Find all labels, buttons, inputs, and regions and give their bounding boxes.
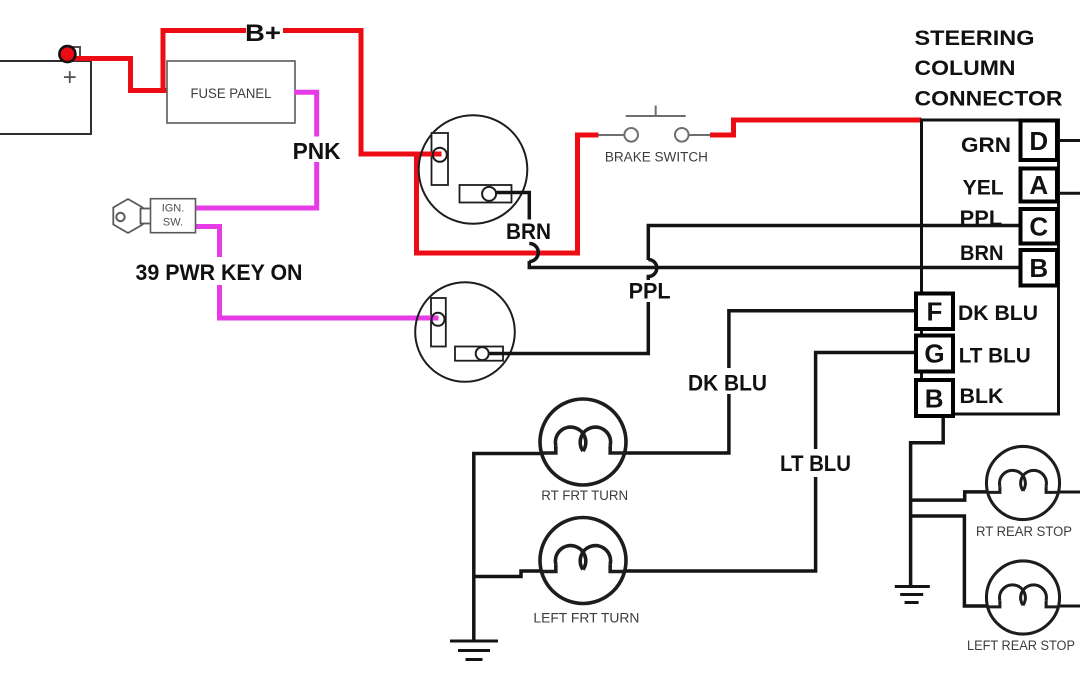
turn flasher U1 pin housing vertical <box>432 133 449 185</box>
wire LT BLU to connector pin G <box>816 353 914 450</box>
wire red B+ riser <box>163 31 246 93</box>
svg-text:DK BLU: DK BLU <box>688 371 767 396</box>
wire PPL flasher U2 output <box>488 302 648 354</box>
wire red B+ to flasher U1 <box>283 31 441 155</box>
svg-text:39 PWR KEY ON: 39 PWR KEY ON <box>136 260 303 285</box>
connector pin D <box>1021 121 1058 161</box>
svg-text:RT REAR STOP: RT REAR STOP <box>976 524 1072 539</box>
connector pin G <box>916 336 953 372</box>
wire DK BLU from RT FRT TURN <box>626 394 729 453</box>
svg-text:B: B <box>1029 253 1048 283</box>
svg-text:PNK: PNK <box>293 138 341 164</box>
svg-text:G: G <box>924 339 944 369</box>
wire pin A to right edge <box>1059 192 1080 195</box>
svg-text:BRN: BRN <box>960 242 1004 265</box>
svg-text:CONNECTOR: CONNECTOR <box>915 87 1063 111</box>
connector pin B lower <box>916 380 953 416</box>
wire BLK pin B to ground bus <box>911 418 944 586</box>
svg-text:A: A <box>1029 170 1048 200</box>
wire red branch to brake switch <box>417 135 599 253</box>
ignition switch key head <box>113 199 142 233</box>
svg-text:LT BLU: LT BLU <box>959 345 1031 368</box>
steering column connector body <box>922 120 1059 414</box>
wire LEFT REAR STOP to right edge <box>1060 605 1080 608</box>
svg-text:LT BLU: LT BLU <box>780 451 851 476</box>
svg-text:D: D <box>1029 126 1048 156</box>
stop flasher U2 pin housing vertical <box>431 298 446 347</box>
svg-text:GRN: GRN <box>961 134 1011 157</box>
svg-text:IGN.: IGN. <box>162 203 185 215</box>
svg-text:LEFT FRT TURN: LEFT FRT TURN <box>533 611 639 626</box>
brake switch contact left <box>624 128 638 142</box>
wire PPL hop over BRN wire <box>648 260 657 281</box>
turn flasher U1 pin housing horizontal <box>460 185 512 203</box>
stop flasher U2 terminal 2 <box>476 347 489 360</box>
battery positive terminal <box>59 46 75 62</box>
wire LT BLU from LEFT FRT TURN <box>626 477 816 571</box>
brake switch actuator stem <box>655 106 657 117</box>
wire DK BLU to connector pin F <box>729 311 914 368</box>
svg-text:STEERING: STEERING <box>915 26 1035 50</box>
svg-text:BRAKE SWITCH: BRAKE SWITCH <box>605 150 708 165</box>
svg-text:YEL: YEL <box>963 177 1004 200</box>
turn flasher U1 terminal 2 <box>482 187 496 201</box>
wire LEFT FRT TURN left to ground bus <box>474 571 541 577</box>
svg-text:F: F <box>927 297 943 327</box>
wire red brake switch to connector <box>710 120 922 135</box>
wire red stub into flasher U1 <box>426 152 442 157</box>
battery B1 body <box>0 61 91 134</box>
ignition switch key hole <box>116 213 124 221</box>
lamp RT REAR STOP <box>986 446 1059 519</box>
lamp LEFT REAR STOP <box>986 561 1059 634</box>
fuse panel FP1 <box>167 61 295 123</box>
lamp LEFT FRT TURN <box>540 518 626 604</box>
turn flasher U1 case <box>419 115 528 224</box>
stop flasher U2 pin housing horizontal <box>455 347 503 361</box>
wire red battery to fuse panel <box>67 59 168 91</box>
svg-text:LEFT REAR STOP: LEFT REAR STOP <box>967 638 1075 653</box>
brake switch lead left <box>598 134 624 136</box>
stop flasher U2 case <box>415 282 515 382</box>
ignition switch IGN SW box <box>151 199 196 233</box>
wire RT REAR STOP to right edge <box>1060 491 1080 494</box>
battery post clamp <box>70 47 80 60</box>
ground symbol front <box>450 641 498 660</box>
svg-text:RT FRT TURN: RT FRT TURN <box>541 488 628 503</box>
wire to LEFT REAR STOP <box>911 516 987 606</box>
stop flasher U2 terminal 1 <box>432 313 445 326</box>
svg-text:DK BLU: DK BLU <box>958 302 1038 325</box>
svg-text:C: C <box>1029 212 1048 242</box>
wire PNK ignition switch to flasher U2 <box>196 227 438 319</box>
ground symbol rear <box>895 587 930 603</box>
connector pin C <box>1021 209 1058 244</box>
svg-text:COLUMN: COLUMN <box>915 56 1016 80</box>
wire BRN hop over red wire <box>529 244 538 262</box>
wire BRN to connector pin B <box>529 261 1019 268</box>
connector pin B <box>1021 250 1058 286</box>
svg-text:SW.: SW. <box>163 217 183 229</box>
wire BRN flasher U1 output <box>495 193 529 220</box>
svg-text:BRN: BRN <box>506 219 551 244</box>
svg-text:B+: B+ <box>245 20 281 47</box>
svg-text:B: B <box>925 384 944 414</box>
svg-text:PPL: PPL <box>960 207 1003 230</box>
wire RT FRT TURN left to ground <box>474 454 540 642</box>
wire to RT REAR STOP <box>911 492 987 500</box>
svg-text:BLK: BLK <box>960 385 1004 408</box>
turn flasher U1 terminal 1 <box>433 148 447 162</box>
brake switch actuator bar <box>626 115 686 117</box>
lamp RT FRT TURN <box>540 399 626 485</box>
connector pin A <box>1021 169 1058 202</box>
svg-text:FUSE PANEL: FUSE PANEL <box>191 85 272 101</box>
brake switch lead right <box>689 134 710 136</box>
connector pin F <box>916 294 953 330</box>
ignition switch key tab <box>141 209 152 224</box>
wire PPL to connector pin C <box>648 226 1019 261</box>
svg-text:+: + <box>63 64 77 91</box>
brake switch contact right <box>675 128 689 142</box>
svg-text:PPL: PPL <box>629 279 671 304</box>
wire PNK fuse panel to ignition switch <box>196 92 317 208</box>
wire pin D to right edge <box>1059 139 1080 142</box>
wire PNK stub into flasher U2 <box>426 316 439 321</box>
